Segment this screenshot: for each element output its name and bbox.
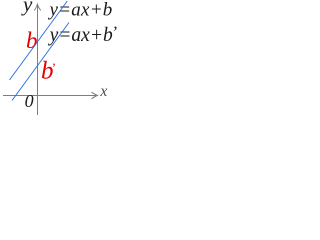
svg-text:0: 0 xyxy=(25,91,34,111)
svg-text:y=ax+b: y=ax+b xyxy=(48,0,113,21)
line y=ax+b' (lower blue line) xyxy=(12,23,69,101)
svg-text:x: x xyxy=(99,83,107,100)
y-axis arrowhead xyxy=(34,4,41,10)
svg-text:y: y xyxy=(21,0,33,16)
y-axis xyxy=(37,5,39,115)
x-axis arrowhead xyxy=(92,92,98,99)
line y=ax+b (upper blue line) xyxy=(10,1,68,80)
svg-text:b’: b’ xyxy=(41,57,55,84)
svg-text:y=ax+b’: y=ax+b’ xyxy=(48,23,118,47)
x-axis xyxy=(3,95,97,97)
